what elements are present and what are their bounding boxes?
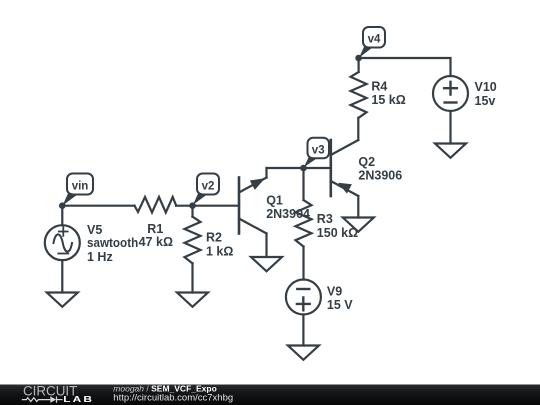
wire V10 to ground (449, 111, 451, 144)
ground under Q2 (343, 218, 374, 232)
svg-text:V10: V10 (475, 80, 497, 94)
svg-text:15 kΩ: 15 kΩ (371, 93, 405, 107)
node label v4 (359, 27, 385, 58)
svg-text:v2: v2 (202, 181, 215, 193)
svg-text:2N3906: 2N3906 (358, 169, 402, 183)
wire R2 to ground (191, 263, 193, 292)
voltage source V5 (45, 225, 80, 260)
svg-text:R4: R4 (371, 80, 387, 94)
ground under Q1 (251, 257, 282, 271)
resistor R1 (135, 197, 177, 213)
wire vin node to V5 (61, 206, 63, 226)
wire V9 to ground (302, 315, 304, 346)
voltage source V10 (433, 76, 468, 111)
node label v3 (304, 138, 329, 168)
node label v2 (193, 174, 219, 206)
label Q1 value (266, 194, 310, 221)
label R1 value (139, 222, 173, 249)
svg-text:1 Hz: 1 Hz (87, 250, 113, 264)
wire Q1 collector to ground (265, 234, 267, 258)
resistor R3 (296, 200, 312, 247)
svg-text:sawtooth: sawtooth (87, 236, 138, 250)
svg-text:V5: V5 (87, 223, 102, 237)
label V9 value (327, 284, 353, 312)
wire vin node to R1 (62, 205, 134, 207)
wire R1 to Q1 base (176, 205, 239, 207)
label R3 value (317, 212, 358, 240)
svg-text:R2: R2 (206, 231, 222, 245)
wire v2 node to R2 (191, 206, 193, 217)
wire R3 to V9 (302, 247, 304, 280)
svg-text:2N3904: 2N3904 (266, 207, 310, 221)
svg-text:Q2: Q2 (358, 155, 375, 169)
svg-text:47 kΩ: 47 kΩ (139, 235, 173, 249)
wire Q2 collector to ground (357, 196, 359, 218)
resistor R4 (351, 72, 367, 118)
wire v3 rail (267, 167, 331, 169)
svg-text:v3: v3 (312, 145, 325, 157)
svg-text:Q1: Q1 (266, 194, 283, 208)
label R2 value (206, 231, 233, 259)
node v2 dot (189, 202, 196, 209)
label V5 value (87, 223, 138, 264)
ground under V10 (435, 144, 466, 158)
ground under V9 (288, 346, 319, 360)
svg-text:1 kΩ: 1 kΩ (206, 245, 233, 259)
wire Q2 emitter to R4 (357, 118, 359, 140)
label R4 value (371, 80, 405, 108)
footer logo resistor-diode squiggle (22, 396, 63, 402)
svg-text:v4: v4 (368, 34, 381, 46)
node vin dot (59, 202, 66, 209)
transistor Q2 (331, 140, 359, 196)
resistor R2 (185, 217, 201, 264)
wire v4 node to R4 (358, 58, 360, 72)
ground under R2 (177, 293, 208, 307)
svg-text:LAB: LAB (63, 395, 94, 404)
svg-text:R3: R3 (317, 212, 333, 226)
transistor Q1 (239, 178, 267, 234)
label V10 value (475, 80, 497, 108)
wire Q1 emitter to v3 rail (265, 168, 267, 178)
svg-text:V9: V9 (327, 284, 342, 298)
svg-text:15 V: 15 V (327, 298, 353, 312)
wire V5 to ground (61, 260, 63, 292)
svg-text:vin: vin (72, 181, 89, 193)
node label vin (63, 174, 94, 206)
wire v4 rail to V10 (359, 58, 451, 76)
node v4 dot (355, 55, 362, 62)
svg-text:R1: R1 (147, 222, 163, 236)
voltage source V9 (286, 280, 321, 315)
svg-text:150 kΩ: 150 kΩ (317, 226, 358, 240)
svg-text:15v: 15v (475, 94, 496, 108)
ground under V5 (47, 293, 78, 307)
svg-text:http://circuitlab.com/cc7xhbg: http://circuitlab.com/cc7xhbg (113, 392, 233, 403)
wire v3 node to R3 (302, 168, 304, 200)
node v3 dot (300, 165, 307, 172)
label Q2 value (358, 155, 402, 183)
footer bar (0, 385, 540, 405)
